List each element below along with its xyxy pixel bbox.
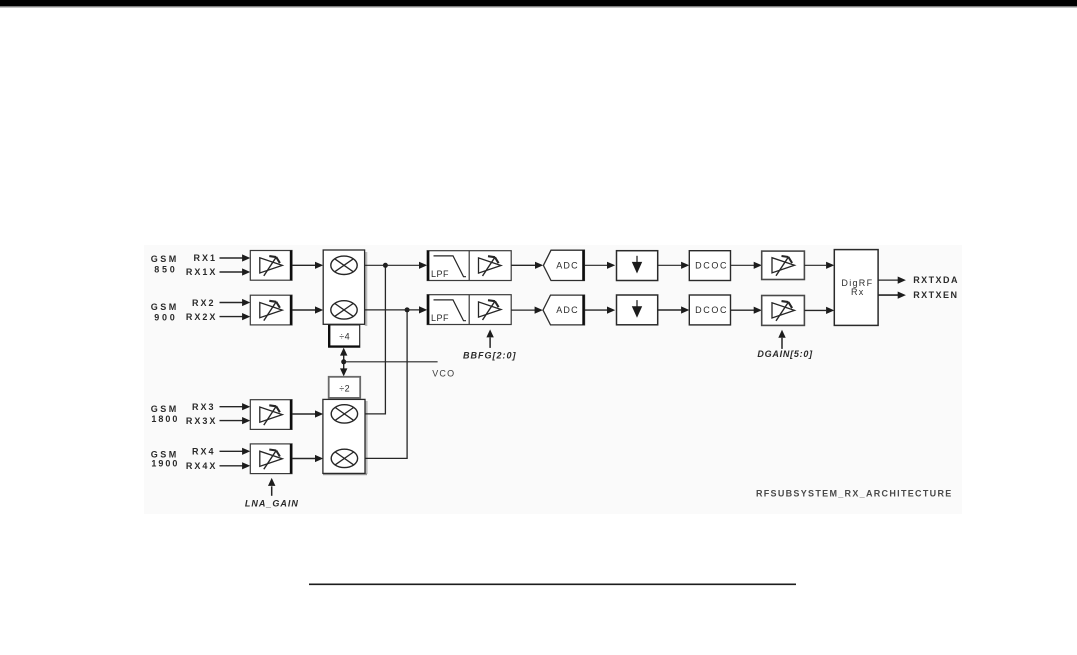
svg-text:ADC: ADC (556, 261, 579, 271)
label VCO (432, 368, 455, 378)
svg-text:RXTXDA: RXTXDA (913, 275, 959, 285)
junction node A (383, 263, 388, 268)
svg-text:RX1: RX1 (193, 253, 217, 263)
wire LNA A4 to mixer (292, 455, 323, 462)
svg-text:RX2: RX2 (192, 298, 216, 308)
mixer block M1/M2 (GSM850/900) (323, 250, 367, 326)
svg-text:LPF: LPF (431, 269, 449, 279)
svg-text:DCOC: DCOC (695, 260, 728, 270)
divider block ÷4 (328, 325, 360, 347)
top black header bar (0, 0, 1077, 8)
svg-text:RFSUBSYSTEM_RX_ARCHITECTURE: RFSUBSYSTEM_RX_ARCHITECTURE (756, 488, 953, 498)
label BBFG[2:0] (463, 350, 517, 360)
wire mixer M4 out to node B (365, 310, 407, 459)
label DGAIN[5:0] (757, 349, 813, 359)
LNA amplifier A3 (250, 400, 292, 430)
wire RXTXDA output (878, 277, 906, 284)
svg-text:1900: 1900 (151, 458, 179, 468)
svg-text:ADC: ADC (556, 305, 579, 315)
wire decimator to DCOC Q (658, 306, 690, 313)
divider block ÷2 (329, 377, 361, 398)
svg-text:RX3X: RX3X (186, 416, 218, 426)
wire BBFG control arrow (486, 329, 493, 348)
label GSM 850 (151, 254, 179, 274)
pin label RX4X (186, 461, 218, 471)
digital gain amplifier DGA I (762, 251, 805, 279)
LPF + BB amplifier chain I (427, 251, 511, 281)
bottom horizontal rule (309, 583, 796, 585)
pin label RX2 (192, 298, 216, 308)
wire RX3 input (220, 403, 251, 410)
junction node B (405, 307, 410, 312)
svg-text:÷4: ÷4 (339, 332, 350, 342)
svg-text:RX4X: RX4X (186, 461, 218, 471)
wire LNA A2 to mixer (292, 306, 323, 313)
pin label RXTXDA (913, 275, 959, 285)
mixer block M3/M4 (GSM1800/1900) (323, 399, 368, 475)
label LNA_GAIN (245, 499, 299, 509)
LNA amplifier A1 (250, 251, 292, 281)
wire LNA A1 to mixer (292, 262, 323, 269)
pin label RXTXEN (913, 290, 958, 300)
svg-text:BBFG[2:0]: BBFG[2:0] (463, 350, 517, 360)
svg-text:GSM: GSM (151, 254, 179, 264)
wire RX2X input (220, 313, 251, 320)
svg-text:RX4: RX4 (192, 446, 216, 456)
svg-text:Rx: Rx (851, 287, 865, 297)
pin label RX1 (193, 253, 217, 263)
wire DGAIN control arrow (778, 330, 785, 349)
svg-text:RX1X: RX1X (186, 267, 218, 277)
wire ADC to decimator I (584, 262, 615, 269)
svg-text:VCO: VCO (432, 368, 455, 378)
DCOC Q (689, 295, 730, 325)
svg-text:DGAIN[5:0]: DGAIN[5:0] (757, 349, 813, 359)
svg-text:1800: 1800 (151, 414, 179, 424)
DigRF Rx interface block (834, 250, 878, 326)
pin label RX3X (186, 416, 218, 426)
label GSM 900 (151, 302, 179, 322)
junction LO node (341, 359, 346, 364)
decimator I (617, 251, 658, 281)
pin label RX4 (192, 446, 216, 456)
label GSM 1900 (151, 450, 180, 469)
wire VCO feed (344, 361, 438, 363)
svg-text:850: 850 (154, 264, 177, 274)
wire DGA to DigRF Q (804, 307, 834, 314)
LNA amplifier A2 (250, 295, 292, 325)
svg-text:LNA_GAIN: LNA_GAIN (245, 499, 299, 509)
ADC I (543, 250, 584, 280)
wire RXTXEN output (878, 292, 906, 299)
wire mixer M3 out to node A (365, 265, 385, 414)
wire mixer out I to LPF1 (365, 262, 427, 269)
svg-text:DCOC: DCOC (695, 305, 728, 315)
pin label RX1X (186, 267, 218, 277)
svg-text:GSM: GSM (151, 404, 179, 414)
digital gain amplifier DGA Q (762, 296, 805, 326)
svg-text:RXTXEN: RXTXEN (913, 290, 958, 300)
figure background area (144, 245, 962, 514)
wire RX2 input (220, 299, 251, 306)
LPF + BB amplifier chain Q (427, 295, 511, 325)
svg-text:RX3: RX3 (192, 402, 216, 412)
wire BB amp to ADC Q (511, 307, 543, 314)
decimator Q (617, 295, 658, 325)
wire LNA_GAIN control arrow (268, 478, 275, 496)
wire DCOC to DGA I (731, 262, 762, 269)
pin label RX3 (192, 402, 216, 412)
wire mixer out Q to LPF2 (365, 306, 427, 313)
wire RX4X input (220, 462, 251, 469)
label RFSUBSYSTEM_RX_ARCHITECTURE (756, 488, 953, 498)
wire ADC to decimator Q (585, 307, 616, 314)
pin label RX2X (186, 312, 218, 322)
wire decimator to DCOC I (658, 262, 690, 269)
wire BB amp to ADC I (511, 262, 543, 269)
wire DCOC to DGA Q (731, 307, 762, 314)
wire RX1 input (220, 254, 251, 261)
wire LNA A3 to mixer (292, 410, 323, 417)
wire LO coupling arrow (340, 348, 347, 377)
svg-text:LPF: LPF (431, 313, 449, 323)
DCOC I (689, 251, 730, 281)
wire RX4 input (220, 448, 251, 455)
label GSM 1800 (151, 404, 180, 424)
wire DGA to DigRF I (804, 262, 834, 269)
svg-text:÷2: ÷2 (339, 383, 350, 393)
svg-text:GSM: GSM (151, 302, 179, 312)
wire RX3X input (220, 417, 251, 424)
svg-text:RX2X: RX2X (186, 312, 218, 322)
ADC Q (543, 295, 585, 325)
svg-text:900: 900 (154, 313, 177, 323)
wire RX1X input (220, 268, 251, 275)
LNA amplifier A4 (250, 444, 292, 474)
